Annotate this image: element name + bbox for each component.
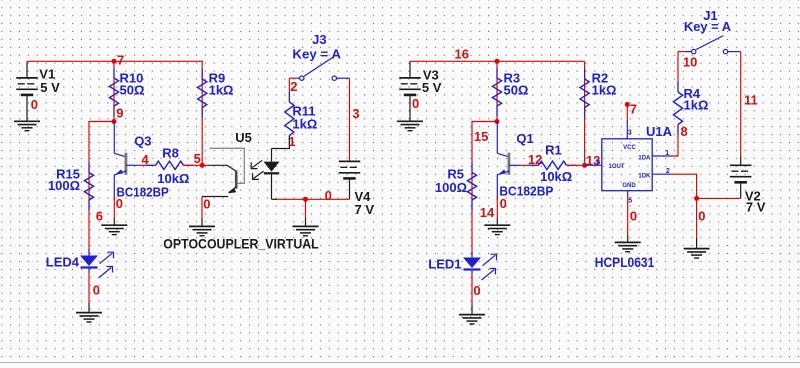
svg-text:0: 0	[412, 96, 419, 111]
svg-text:10: 10	[683, 55, 697, 70]
U1A cathode pin 2 wire	[652, 173, 671, 175]
svg-text:J3: J3	[312, 32, 326, 47]
IC U1A HCPL0631 box	[602, 139, 652, 191]
svg-text:HCPL0631: HCPL0631	[595, 254, 655, 270]
resistor R10 50ohm	[113, 68, 115, 78]
battery V4 7V	[349, 160, 351, 161]
wire junction to ground	[305, 199, 307, 218]
svg-text:BC182BP: BC182BP	[499, 183, 553, 198]
wire net 16 top rail V3 to R2	[410, 60, 585, 62]
svg-text:U1A: U1A	[646, 124, 673, 139]
resistor R15 100ohm	[88, 163, 90, 173]
svg-text:3: 3	[628, 129, 632, 136]
wire node 12 Q1 base to R1	[521, 164, 539, 166]
svg-text:0: 0	[116, 196, 123, 211]
svg-text:0: 0	[93, 283, 100, 298]
svg-text:6: 6	[596, 160, 600, 167]
node 7	[112, 59, 117, 64]
svg-text:50Ω: 50Ω	[504, 83, 529, 98]
svg-text:10kΩ: 10kΩ	[540, 169, 572, 184]
ground at Q3 emitter	[101, 224, 127, 226]
ground at V3	[397, 120, 423, 122]
wire V2 minus	[697, 197, 741, 199]
svg-text:1: 1	[665, 150, 669, 157]
svg-text:OPTOCOUPLER_VIRTUAL: OPTOCOUPLER_VIRTUAL	[163, 235, 319, 251]
wire LED1 to ground	[471, 275, 473, 306]
battery V3 5V	[409, 61, 411, 78]
svg-text:Q1: Q1	[516, 131, 533, 146]
svg-text:LED4: LED4	[46, 254, 80, 269]
svg-text:16: 16	[455, 47, 469, 62]
svg-text:2: 2	[290, 79, 297, 94]
svg-text:7: 7	[117, 53, 124, 68]
svg-text:VCC: VCC	[623, 145, 636, 151]
svg-text:5 V: 5 V	[40, 80, 60, 95]
ground below LED1	[459, 314, 485, 316]
U1A anode pin 1 wire to node 8	[652, 155, 672, 157]
wire net 7 top rail V1 to R9	[27, 60, 203, 62]
wire LED4 to ground	[88, 273, 90, 304]
node 16	[495, 59, 500, 64]
switch J1 Key=A	[678, 51, 685, 53]
ground at Q1 emitter	[484, 224, 510, 226]
svg-text:7: 7	[630, 101, 637, 116]
svg-text:5 V: 5 V	[422, 80, 442, 95]
svg-text:BC182BP: BC182BP	[117, 184, 169, 199]
battery V1	[26, 61, 28, 78]
svg-text:14: 14	[480, 205, 495, 220]
wire node 4 Q3 base to R8	[138, 164, 156, 166]
svg-text:50Ω: 50Ω	[120, 83, 145, 98]
resistor R11 1kohm	[288, 92, 290, 102]
wire node 11 J1 to V2	[740, 52, 742, 156]
transistor Q3 BC182BP	[113, 122, 115, 154]
wire node 3 J3 to V4	[349, 78, 351, 161]
optocoupler U5 phototransistor	[202, 164, 208, 166]
svg-text:LED1: LED1	[428, 256, 461, 271]
svg-text:3: 3	[352, 106, 359, 121]
transistor Q1 BC182BP	[496, 122, 498, 154]
U5 light arrows	[252, 160, 262, 167]
svg-text:0: 0	[473, 283, 480, 298]
ground at V2 junction	[684, 248, 710, 250]
svg-text:5: 5	[628, 198, 632, 205]
optocoupler U5 base wrap	[210, 148, 245, 183]
wire U5 emitter to ground	[201, 197, 203, 219]
wire node 9 to R15 branch	[89, 122, 114, 255]
resistor R8 10kohm	[146, 164, 156, 166]
resistor R4 1kohm	[677, 82, 679, 92]
wire node 15 to R5 branch	[472, 122, 497, 257]
switch J3 Key=A	[289, 77, 296, 79]
node 15	[495, 119, 500, 124]
wire R9 vertical	[201, 61, 203, 165]
node 5	[200, 163, 205, 168]
wire R11 to U5 LED anode	[272, 136, 290, 149]
ground below LED4	[76, 312, 102, 314]
svg-text:5: 5	[194, 151, 201, 166]
wire junction to ground	[696, 198, 698, 238]
svg-text:11: 11	[744, 92, 758, 107]
wire R3 vertical	[496, 61, 498, 121]
svg-text:1DA: 1DA	[638, 155, 651, 161]
LED LED4	[80, 256, 98, 267]
svg-text:1kΩ: 1kΩ	[592, 83, 617, 98]
svg-text:1DK: 1DK	[638, 173, 651, 179]
wire node 2 J3 to R11	[288, 78, 290, 102]
svg-text:1OUT: 1OUT	[609, 164, 625, 170]
svg-text:15: 15	[474, 129, 488, 144]
svg-text:10kΩ: 10kΩ	[157, 171, 189, 186]
svg-text:V1: V1	[39, 66, 55, 81]
svg-text:U5: U5	[235, 130, 252, 145]
svg-text:100Ω: 100Ω	[435, 180, 467, 195]
svg-text:0: 0	[500, 196, 507, 211]
svg-text:2: 2	[666, 168, 670, 175]
svg-text:7 V: 7 V	[746, 200, 766, 215]
svg-text:1kΩ: 1kΩ	[684, 98, 709, 113]
svg-text:0: 0	[698, 209, 705, 224]
node 9	[112, 119, 117, 124]
svg-text:100Ω: 100Ω	[48, 178, 80, 193]
resistor R9 1kohm	[201, 69, 203, 79]
svg-text:6: 6	[96, 209, 103, 224]
svg-text:0: 0	[630, 209, 637, 224]
svg-text:R8: R8	[162, 146, 179, 161]
svg-text:0: 0	[31, 97, 38, 112]
battery V2 7V	[740, 155, 742, 165]
svg-text:GND: GND	[622, 183, 636, 189]
svg-text:8: 8	[681, 124, 688, 139]
svg-text:Key = A: Key = A	[292, 46, 341, 61]
resistor R5 100ohm	[471, 163, 473, 173]
resistor R3 50ohm	[496, 68, 498, 78]
svg-text:0: 0	[203, 196, 210, 211]
ground at U5 emitter	[189, 225, 215, 227]
wire R10 vertical	[113, 61, 115, 121]
resistor R2 1kohm	[584, 69, 586, 79]
optocoupler U5 internal LED	[271, 149, 273, 162]
resistor R1 10kohm	[529, 164, 539, 166]
node 0 junction at V2	[694, 196, 699, 201]
svg-text:1kΩ: 1kΩ	[209, 83, 234, 98]
node 0 junction at V4	[303, 197, 308, 202]
svg-text:R1: R1	[545, 143, 562, 158]
ground at U1A GND	[615, 241, 641, 243]
U1A output pin to node 13	[585, 164, 602, 166]
wire R1 to node 13	[567, 164, 585, 166]
wire U5 LED cathode to V4 minus	[272, 198, 278, 200]
svg-text:Q3: Q3	[134, 133, 151, 148]
svg-text:9: 9	[116, 106, 123, 121]
wire R2 vertical	[584, 61, 586, 165]
svg-text:Key = A: Key = A	[684, 19, 732, 34]
ground at V4 junction	[293, 225, 319, 227]
wire R8 to node 5	[184, 164, 203, 166]
ground at V1	[14, 120, 40, 122]
svg-text:0: 0	[325, 188, 332, 203]
svg-text:1kΩ: 1kΩ	[292, 116, 317, 131]
U1A GND pin to ground	[627, 191, 629, 197]
node 13	[582, 163, 587, 168]
wire node 10 J1 to R4	[677, 52, 679, 92]
LED LED1	[463, 258, 481, 269]
svg-text:7 V: 7 V	[355, 202, 375, 217]
U1A VCC pin to node 7	[626, 105, 628, 121]
